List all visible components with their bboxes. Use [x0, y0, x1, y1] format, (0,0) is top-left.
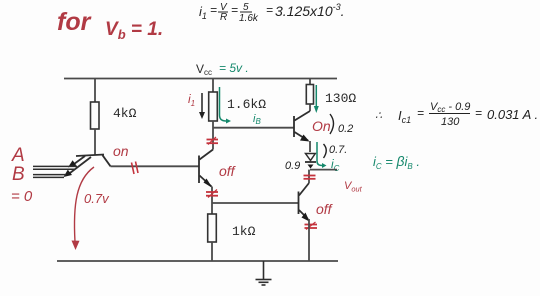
svg-text:4kΩ: 4kΩ — [113, 106, 137, 121]
svg-text:0.031 A .: 0.031 A . — [487, 107, 538, 122]
svg-text:A: A — [11, 145, 25, 166]
svg-text:1kΩ: 1kΩ — [232, 224, 256, 239]
wire: output node horizontal (Vout) — [310, 169, 337, 171]
svg-text:iB: iB — [253, 113, 261, 126]
svg-text:on: on — [113, 143, 129, 159]
svg-text:1.6kΩ: 1.6kΩ — [227, 97, 266, 112]
annotation: red curved arrow 0.7v — [74, 167, 94, 242]
wire: input B (double line) — [33, 174, 66, 176]
svg-text:off: off — [219, 163, 237, 179]
wire: rail to R2 — [212, 79, 214, 93]
annotation: green current arrow beside R3 — [315, 85, 317, 108]
annotation: red hash (cut) on base wire — [132, 162, 139, 175]
annotation: paren 0.7 (black) — [324, 144, 327, 158]
Q4 emitter arrowhead — [302, 213, 310, 222]
wire: rail to R1 — [94, 79, 96, 103]
svg-text:i1: i1 — [199, 4, 207, 21]
wire: Q3 emitter to diode D1 — [309, 141, 311, 152]
wire: node E2 to R4 — [211, 203, 213, 214]
svg-text:=: = — [266, 3, 273, 17]
svg-text:0.9: 0.9 — [285, 160, 300, 172]
svg-text:Vb = 1.: Vb = 1. — [105, 19, 163, 42]
wire: R4 to ground rail — [211, 242, 213, 261]
D1 cathode tick (small filled arrow) — [308, 165, 314, 169]
svg-text:130: 130 — [441, 116, 460, 128]
wire: Q2 emitter down to node E2 — [211, 187, 213, 204]
svg-text:Ic1: Ic1 — [398, 108, 411, 125]
svg-text:=: = — [417, 106, 424, 120]
svg-text:130Ω: 130Ω — [325, 91, 356, 106]
wire: R3 to Q3 collector — [309, 105, 311, 112]
svg-text:=: = — [231, 3, 238, 17]
formula: i1 = V/R = 5/1.6k = 3.125x10^-3 — [199, 2, 345, 24]
svg-text:iC: iC — [331, 157, 340, 173]
Q2 emitter arrowhead — [204, 179, 213, 189]
Q1 emitter arrowhead 2 — [64, 170, 73, 177]
wire: R1 to Q1 base — [94, 129, 96, 155]
Q1 emitter arrowhead 1 — [68, 160, 77, 167]
svg-text:∴: ∴ — [375, 110, 382, 122]
wire: node E2 to Q4 base — [212, 202, 298, 204]
svg-text:i1: i1 — [188, 92, 195, 108]
svg-text:iC = βiB .: iC = βiB . — [373, 153, 420, 171]
svg-text:0.2: 0.2 — [338, 123, 353, 135]
wire: R2 to node C2 — [212, 121, 214, 128]
Q3 emitter arrowhead — [300, 135, 310, 142]
wire: input A (double line) — [33, 165, 77, 167]
wire: output node down to Q4 collector — [308, 170, 310, 183]
ground symbol — [256, 261, 272, 285]
title: for Vb = 1 (red handwriting) — [57, 8, 163, 42]
wire: rail to R3 — [309, 79, 311, 86]
svg-text:0.7.: 0.7. — [329, 144, 347, 156]
svg-text:On: On — [312, 118, 331, 134]
transistor Q1 (multi-emitter input) — [68, 155, 111, 175]
wire: Q2 collector up to node C2 — [212, 128, 214, 150]
svg-text:= 5v .: = 5v . — [219, 61, 249, 75]
resistor R1 4k — [91, 102, 100, 129]
svg-text:Vcc - 0.9: Vcc - 0.9 — [430, 101, 470, 114]
svg-text:3.125x10-3.: 3.125x10-3. — [275, 2, 345, 19]
svg-text:1.6k: 1.6k — [239, 13, 259, 24]
resistor R4 1k — [208, 214, 217, 242]
svg-text:for: for — [57, 8, 92, 36]
wire: Q4 emitter to ground rail — [308, 219, 310, 261]
resistor R3 130 — [306, 85, 313, 105]
svg-text:=: = — [210, 3, 217, 17]
transistor Q2 (phase splitter) — [199, 150, 213, 187]
svg-text:0.7v: 0.7v — [84, 191, 110, 206]
wire: Vcc top rail — [64, 78, 337, 80]
svg-text:off: off — [316, 201, 334, 217]
resistor R2 1.6k — [209, 92, 218, 121]
annotation: paren 0.2 (black) — [330, 114, 334, 134]
wire: bottom ground rail — [57, 260, 338, 262]
wire: node C2 to Q3 base — [213, 127, 294, 129]
svg-text:5: 5 — [243, 2, 249, 13]
diode D1 — [306, 154, 316, 161]
annotation: red hash on Q4 collector — [304, 176, 316, 179]
svg-text:B: B — [12, 164, 25, 185]
annotation: green hook with Ic arrow — [317, 142, 322, 166]
svg-text:=: = — [475, 106, 482, 120]
annotation: green bracket into Q3 base (iB) — [220, 87, 227, 121]
annotation: red hash on Q4 emitter — [305, 222, 318, 230]
annotation: red hash on Q2 collector — [207, 137, 219, 145]
wire: Q1 collector to Q2 base — [111, 165, 200, 167]
svg-text:Vout: Vout — [344, 180, 363, 194]
transistor Q4 (lower output) — [299, 183, 310, 219]
svg-text:= 0: = 0 — [11, 188, 33, 205]
svg-text:R: R — [220, 12, 227, 23]
annotation: red hash (not-equal) on Q2 emitter — [206, 190, 218, 198]
transistor Q3 (upper output) — [294, 111, 310, 141]
annotation: current arrow i1 (black) — [201, 93, 203, 114]
svg-text:Vcc: Vcc — [196, 62, 212, 77]
formula: Ic1 = (Vcc-0.9)/130 = 0.031 A (black) — [375, 101, 538, 128]
